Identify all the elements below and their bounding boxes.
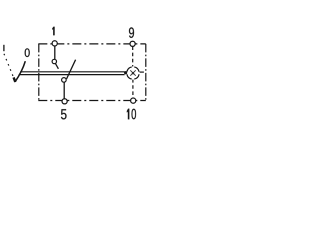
lamp E1 dashed circle [127,67,139,79]
lever arm [15,61,25,82]
mechanical coupling double line upper [20,71,124,73]
mechanical coupling double line lower [19,74,125,76]
lamp wire lamp to pin10 (dashed) [132,80,134,98]
switch housing dash-dot box bottom edge [38,100,146,102]
pin 9 terminal [130,41,135,46]
switch housing dash-dot box top edge [38,43,145,45]
wire lower contact to pin5 [63,82,65,99]
mechanical link dash right of lamp [140,71,144,73]
lever travel dashed line [4,54,13,77]
label pin 5 [61,109,67,119]
lever position-I bar [3,45,5,51]
label pin 1 [52,27,54,35]
lamp X center dot [132,72,134,74]
lamp X stroke 1 [130,70,135,75]
switch housing dash-dot box right edge [145,44,147,101]
upper fixed contact [52,59,56,63]
pin 10 terminal [131,98,136,103]
lamp left terminal dot [124,71,127,74]
lamp wire pin9 to lamp (dashed) [132,46,134,66]
moving contact arm [67,60,76,79]
lamp X stroke 2 [130,70,135,75]
pin 1 terminal [52,41,57,46]
wire pin1 to upper contact [54,46,56,60]
label lever position 0 [25,48,30,57]
label pin 9 [129,27,134,38]
upper contact stub [55,63,58,68]
switch housing dash-dot box left edge [38,44,40,101]
lever pivot tip [14,77,16,82]
pin 5 terminal [62,99,67,104]
lower fixed contact [62,78,67,83]
label pin 10 [127,109,136,120]
